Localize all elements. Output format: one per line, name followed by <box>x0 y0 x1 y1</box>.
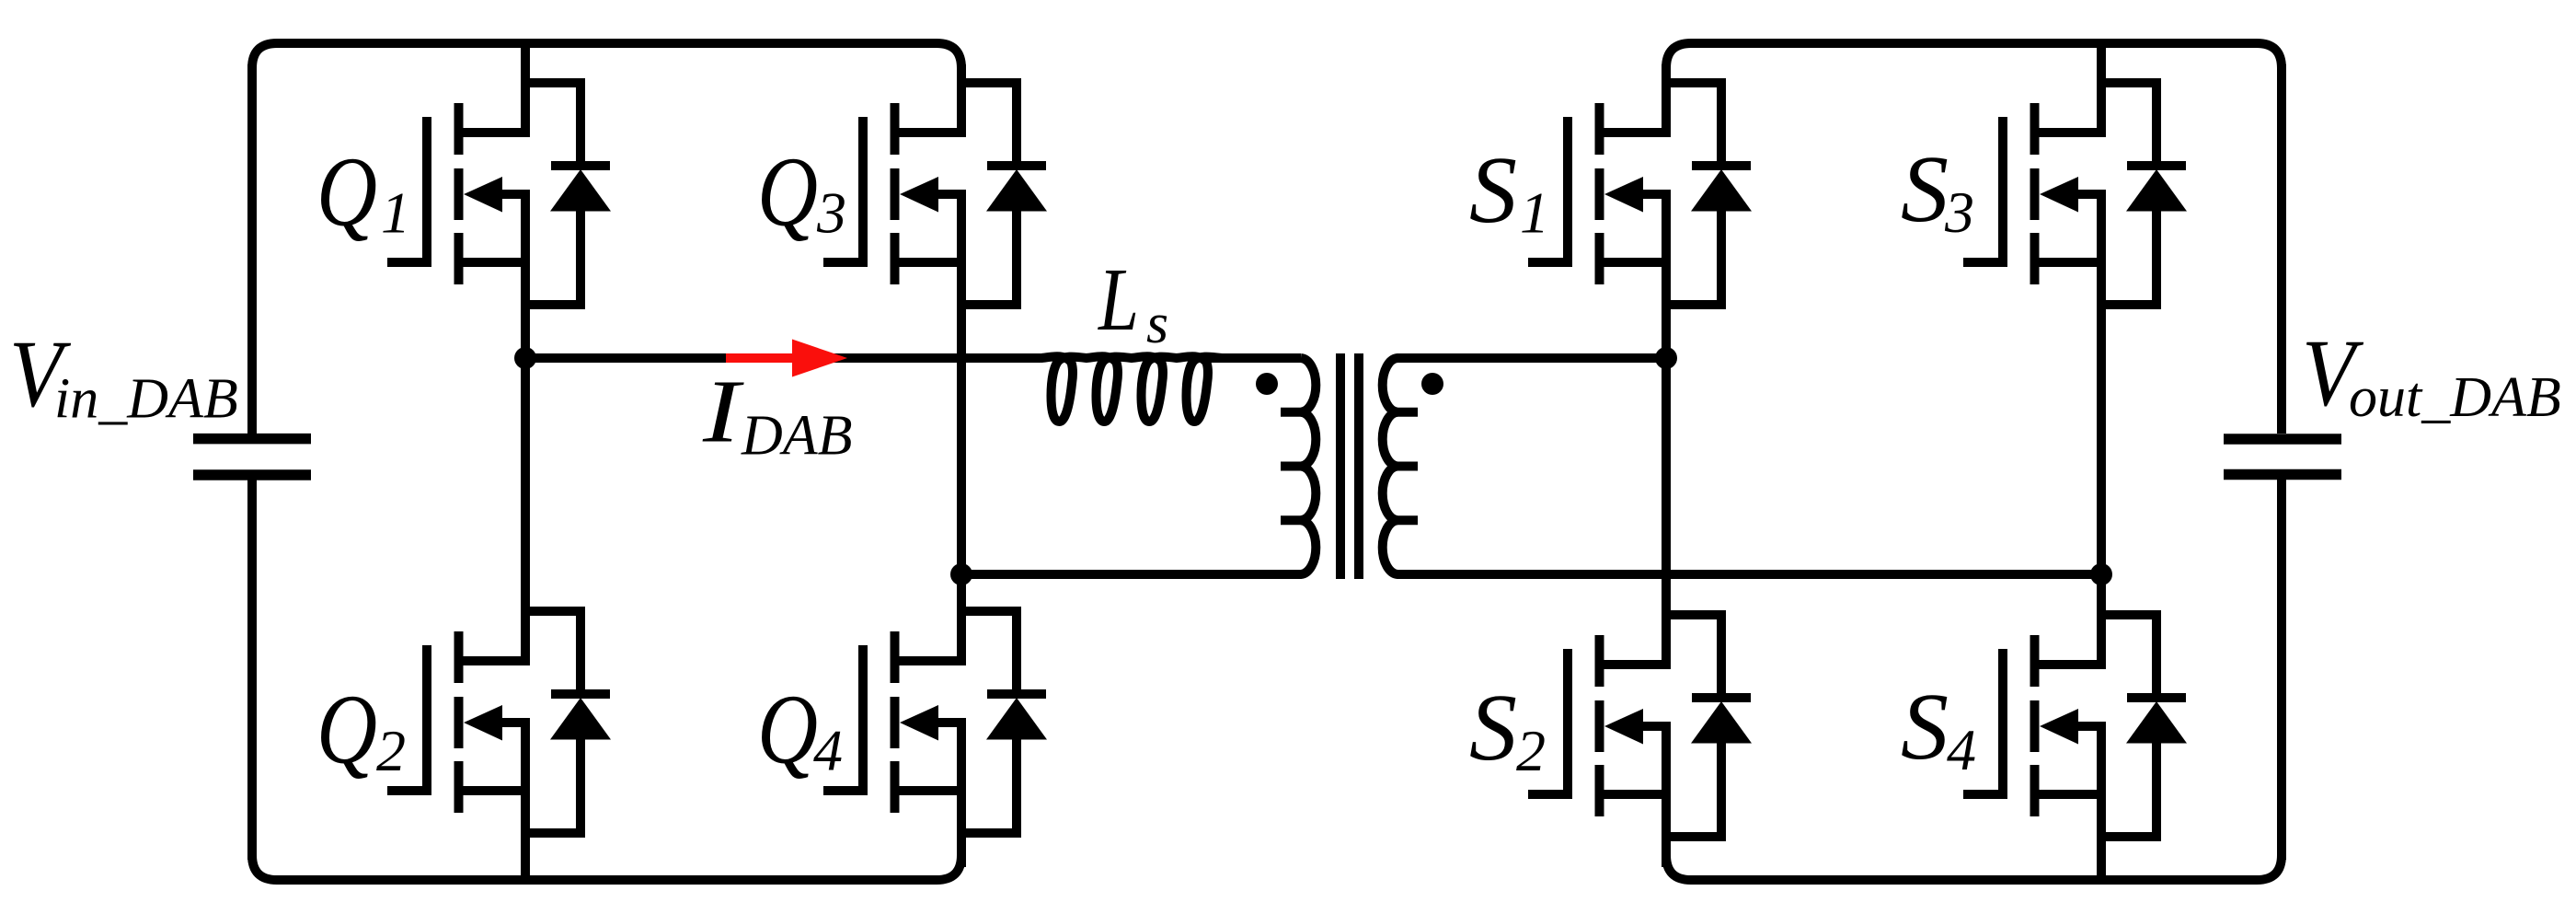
label S3 <box>1901 136 1974 245</box>
wire: inductor to transformer primary <box>1205 353 1301 363</box>
node: S1/S2 midpoint junction <box>1655 347 1677 369</box>
svg-text:S: S <box>1901 136 1949 242</box>
svg-text:2: 2 <box>1516 718 1546 783</box>
svg-text:S: S <box>1469 675 1517 781</box>
label S4 <box>1901 674 1976 782</box>
transformer primary polarity dot <box>1256 373 1278 395</box>
svg-text:Q: Q <box>316 137 377 247</box>
transformer secondary winding (with top lead to S1/S2 node and bottom lead to S3/S4 node) <box>1383 358 2101 574</box>
label Q1 <box>316 137 410 247</box>
svg-text:I: I <box>702 362 745 461</box>
svg-text:S: S <box>1469 137 1517 243</box>
label Vout_DAB (output voltage) <box>2302 320 2561 429</box>
label Ls (series inductance) <box>1097 250 1168 355</box>
label S1 <box>1469 137 1549 245</box>
node: S3/S4 midpoint junction <box>2090 563 2112 585</box>
transistor S1 (NMOS with body diode) <box>1528 83 1752 309</box>
wire: leg S3/S4 mid vertical (node at bottom) <box>2097 190 2106 669</box>
wire: input rail upper segment (Vin+) <box>247 64 257 434</box>
transistor S4 (NMOS with body diode) <box>1963 615 2187 841</box>
svg-text:4: 4 <box>813 718 843 783</box>
svg-text:DAB: DAB <box>741 405 853 468</box>
svg-text:3: 3 <box>1944 179 1974 245</box>
wire: leg Q1/Q2 lower vertical (Q2 source to bottom bus) <box>521 718 530 885</box>
svg-text:in_DAB: in_DAB <box>54 368 238 431</box>
transformer secondary winding cusp curls <box>1397 412 1418 521</box>
transformer primary winding cusp curls <box>1281 412 1302 521</box>
svg-text:out_DAB: out_DAB <box>2349 366 2561 429</box>
label S2 <box>1469 675 1546 783</box>
transformer primary winding (with bottom lead to Q3/Q4 node) <box>961 358 1316 574</box>
svg-text:Q: Q <box>316 676 377 785</box>
wire: right bridge bottom bus <box>1666 855 2282 880</box>
wire: left bridge bottom bus <box>252 855 961 880</box>
svg-text:1: 1 <box>381 179 410 245</box>
wire: right bridge top bus <box>1666 43 2282 68</box>
node: Q3/Q4 midpoint junction <box>950 563 972 585</box>
wire: leg S3/S4 upper vertical <box>2097 39 2106 137</box>
wire: leg S1/S2 lower vertical <box>1662 722 1671 867</box>
transistor Q1 (NMOS with body diode) <box>387 83 611 309</box>
wire: input rail lower segment (Vin-) <box>247 480 257 860</box>
label Q2 <box>316 676 406 785</box>
svg-text:2: 2 <box>376 718 406 783</box>
wire: leg Q3/Q4 lower vertical <box>957 718 966 867</box>
transformer core (two bars) <box>1340 353 1359 579</box>
wire: leg S1/S2 mid vertical (node at top, crosses secondary bottom wire) <box>1662 190 1671 669</box>
wire: left bridge top bus (+ input rail rounded corners) <box>252 43 961 68</box>
wire: output rail upper segment (Vout+) <box>2277 64 2286 434</box>
svg-text:S: S <box>1901 674 1949 780</box>
label Q3 <box>757 137 846 247</box>
transistor Q3 (NMOS with body diode) <box>823 83 1047 309</box>
transistor Q2 (NMOS with body diode) <box>387 611 611 838</box>
svg-text:4: 4 <box>1947 717 1976 782</box>
svg-text:Q: Q <box>757 676 818 785</box>
wire: leg Q1/Q2 mid vertical (Q1 source to Q2 drain through node) <box>521 190 530 665</box>
node: Q1/Q2 midpoint junction <box>514 347 536 369</box>
wire: output rail lower segment (Vout-) <box>2277 480 2286 860</box>
label I_DAB (current) <box>702 362 853 467</box>
svg-text:s: s <box>1146 293 1168 355</box>
inductor Ls (series inductor coil) <box>1041 356 1222 422</box>
label Q4 <box>757 676 843 785</box>
capacitor Cout (output bus capacitor) <box>2224 439 2341 475</box>
wire: bridge output to inductor (I_DAB wire) <box>521 353 1041 363</box>
svg-text:3: 3 <box>816 180 846 246</box>
label Vin_DAB (input voltage) <box>9 321 238 431</box>
svg-text:1: 1 <box>1520 179 1549 245</box>
transistor S3 (NMOS with body diode) <box>1963 83 2187 309</box>
svg-text:L: L <box>1097 250 1139 350</box>
wire: leg Q3/Q4 mid vertical (crosses primary top wire, node at bottom) <box>957 190 966 665</box>
svg-text:Q: Q <box>757 137 818 247</box>
transformer secondary polarity dot <box>1421 373 1443 395</box>
wire: leg Q3/Q4 upper vertical <box>957 64 966 137</box>
capacitor Cin (input bus capacitor) <box>193 439 311 475</box>
wire: leg Q1/Q2 drain link from top bus <box>521 39 530 137</box>
current direction arrow I_DAB (red) <box>726 340 847 377</box>
wire: leg S1/S2 upper vertical <box>1662 64 1671 137</box>
wire: leg S3/S4 lower vertical <box>2097 722 2106 885</box>
transistor Q4 (NMOS with body diode) <box>823 611 1047 838</box>
transistor S2 (NMOS with body diode) <box>1528 615 1752 841</box>
